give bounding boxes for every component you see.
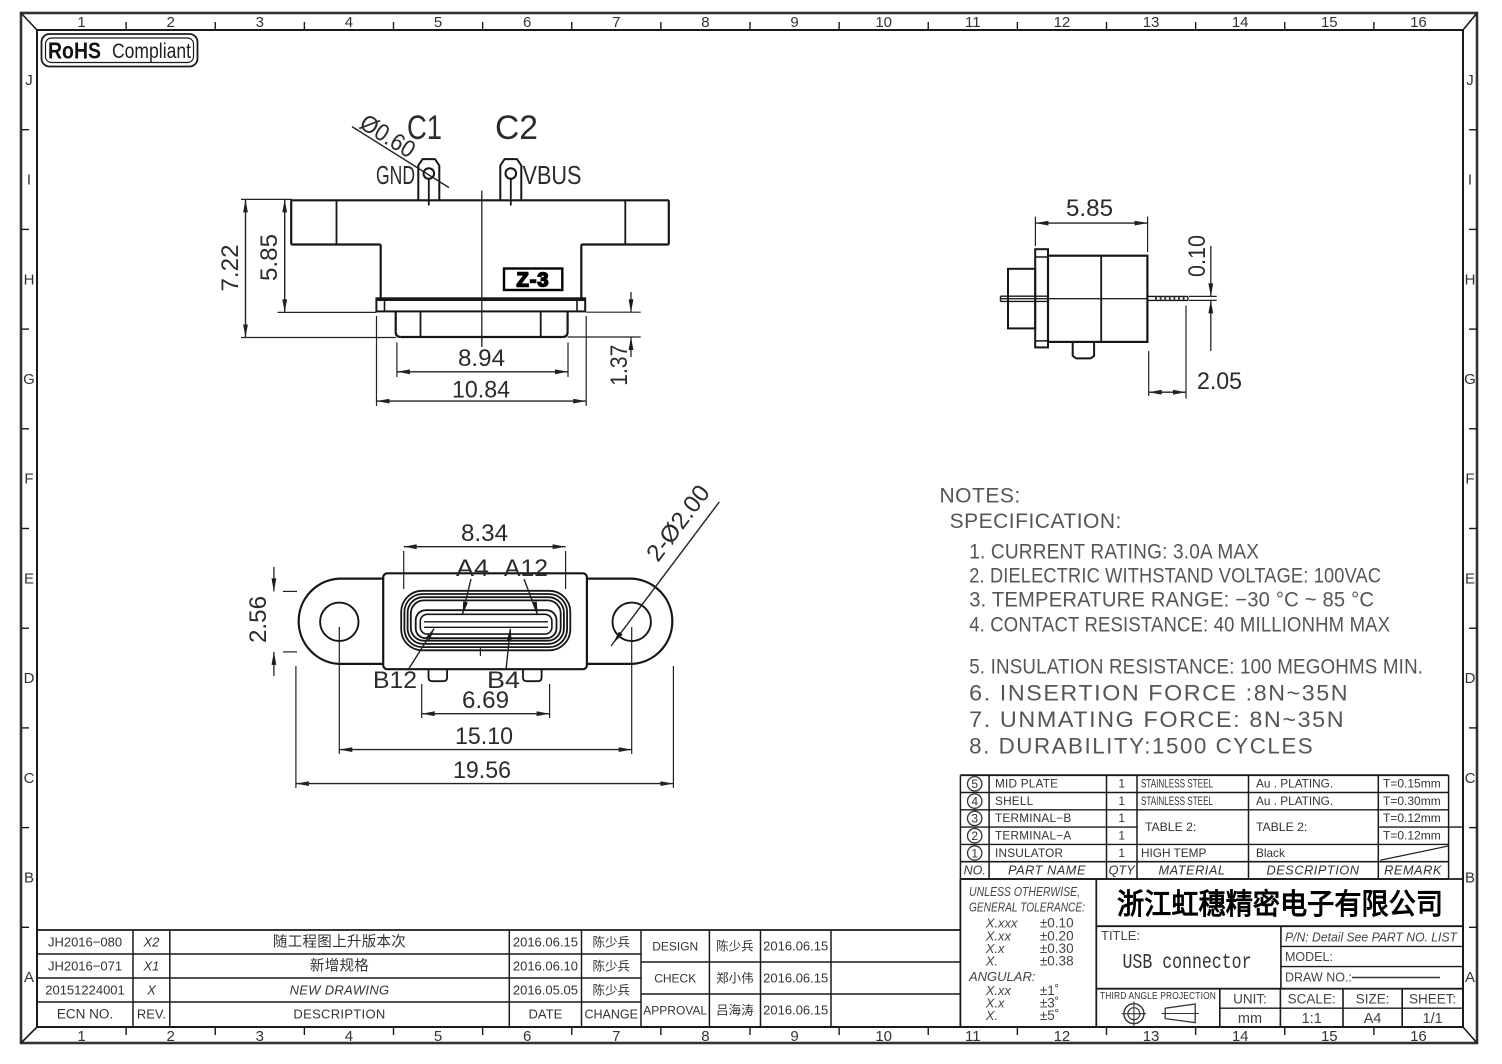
svg-text:PART NAME: PART NAME: [1008, 862, 1086, 877]
svg-text:2016.06.15: 2016.06.15: [763, 939, 828, 954]
svg-text:2016.05.05: 2016.05.05: [513, 982, 578, 997]
svg-text:2016.06.10: 2016.06.10: [513, 958, 578, 973]
svg-text:INSULATOR: INSULATOR: [995, 846, 1063, 860]
svg-text:A4: A4: [456, 555, 489, 582]
svg-text:12: 12: [1054, 14, 1071, 31]
svg-text:1. CURRENT RATING: 3.0A MA: 1. CURRENT RATING: 3.0A MAX: [969, 541, 1259, 564]
svg-text:3: 3: [256, 14, 264, 31]
svg-text:T=0.15mm: T=0.15mm: [1383, 777, 1441, 791]
svg-text:THIRD ANGLE PROJECTION: THIRD ANGLE PROJECTION: [1100, 990, 1216, 1002]
svg-text:X.: X.: [985, 953, 998, 968]
svg-text:5: 5: [434, 1028, 442, 1045]
svg-text:9: 9: [790, 14, 798, 31]
svg-text:E: E: [1465, 570, 1475, 587]
svg-text:T=0.30mm: T=0.30mm: [1383, 794, 1441, 808]
svg-text:10: 10: [875, 14, 892, 31]
svg-text:X.: X.: [985, 1008, 998, 1023]
svg-text:USB connector: USB connector: [1123, 952, 1252, 975]
svg-text:5: 5: [971, 777, 978, 791]
svg-text:陈少兵: 陈少兵: [592, 958, 630, 973]
svg-text:1/1: 1/1: [1423, 1011, 1443, 1027]
svg-text:15: 15: [1321, 14, 1338, 31]
svg-text:8.34: 8.34: [461, 520, 508, 547]
svg-text:C: C: [1465, 770, 1476, 787]
svg-text:ANGULAR:: ANGULAR:: [968, 969, 1036, 984]
svg-text:DRAW NO.:: DRAW NO.:: [1285, 971, 1352, 985]
svg-text:2016.06.15: 2016.06.15: [513, 934, 578, 949]
svg-text:1: 1: [1118, 794, 1125, 808]
svg-text:陈少兵: 陈少兵: [592, 934, 630, 949]
svg-text:STAINLESS STEEL: STAINLESS STEEL: [1141, 777, 1213, 791]
svg-text:8.94: 8.94: [458, 345, 505, 372]
svg-text:X2: X2: [142, 934, 160, 949]
svg-text:4: 4: [345, 1028, 353, 1045]
svg-text:SHEET:: SHEET:: [1409, 991, 1456, 1006]
svg-text:T=0.12mm: T=0.12mm: [1383, 829, 1441, 843]
svg-text:NOTES:: NOTES:: [940, 485, 1021, 508]
svg-text:新增规格: 新增规格: [310, 957, 369, 974]
svg-text:GENERAL TOLERANCE:: GENERAL TOLERANCE:: [969, 900, 1085, 915]
svg-text:12: 12: [1054, 1028, 1071, 1045]
svg-text:X1: X1: [142, 958, 159, 973]
svg-text:Compliant: Compliant: [112, 40, 191, 63]
svg-text:1: 1: [1118, 811, 1125, 825]
svg-text:6.69: 6.69: [462, 687, 509, 714]
svg-text:1: 1: [971, 846, 978, 860]
svg-text:F: F: [24, 471, 33, 488]
svg-text:APPROVAL: APPROVAL: [643, 1004, 707, 1018]
svg-text:6. INSERTION FORCE :8N~3: 6. INSERTION FORCE :8N~35N: [969, 680, 1349, 705]
svg-text:2016.06.15: 2016.06.15: [763, 971, 828, 986]
svg-text:6: 6: [523, 14, 531, 31]
svg-text:8: 8: [701, 14, 709, 31]
svg-text:3: 3: [256, 1028, 264, 1045]
svg-text:REMARK: REMARK: [1384, 862, 1442, 877]
svg-text:DESCRIPTION: DESCRIPTION: [1267, 862, 1360, 877]
svg-text:B: B: [1465, 869, 1475, 886]
svg-text:SCALE:: SCALE:: [1288, 991, 1336, 1006]
svg-text:8. DURABILITY:1500 CYCLES: 8. DURABILITY:1500 CYCLES: [969, 734, 1314, 759]
svg-text:Au . PLATING.: Au . PLATING.: [1256, 777, 1333, 791]
svg-text:1: 1: [77, 1028, 85, 1045]
svg-text:吕海涛: 吕海涛: [716, 1003, 754, 1018]
svg-text:Black: Black: [1256, 846, 1285, 860]
svg-text:TABLE 2:: TABLE 2:: [1256, 820, 1307, 834]
svg-text:T=0.12mm: T=0.12mm: [1383, 811, 1441, 825]
svg-text:3. TEMPERATURE RANGE: −30 °: 3. TEMPERATURE RANGE: −30 °C ~ 85 °C: [969, 588, 1374, 611]
svg-text:H: H: [24, 271, 35, 288]
svg-text:5: 5: [434, 14, 442, 31]
svg-text:C2: C2: [495, 109, 538, 147]
svg-text:5. INSULATION RESISTANCE: 1: 5. INSULATION RESISTANCE: 100 MEGOHMS MI…: [969, 656, 1423, 679]
svg-text:陈少兵: 陈少兵: [592, 982, 630, 997]
svg-text:7.22: 7.22: [217, 245, 244, 292]
svg-text:10: 10: [875, 1028, 892, 1045]
svg-text:VBUS: VBUS: [523, 160, 582, 190]
svg-text:TABLE 2:: TABLE 2:: [1145, 820, 1196, 834]
svg-text:15.10: 15.10: [455, 723, 513, 750]
svg-text:3: 3: [971, 812, 978, 826]
svg-text:MODEL:: MODEL:: [1285, 950, 1333, 964]
svg-text:TERMINAL−B: TERMINAL−B: [995, 811, 1071, 825]
svg-text:MID PLATE: MID PLATE: [995, 777, 1058, 791]
svg-text:2.56: 2.56: [245, 596, 272, 643]
svg-text:DESIGN: DESIGN: [652, 940, 698, 954]
svg-text:SHELL: SHELL: [995, 794, 1034, 808]
svg-text:B12: B12: [373, 667, 417, 694]
svg-text:G: G: [23, 371, 35, 388]
svg-text:10.84: 10.84: [452, 377, 510, 404]
svg-text:2: 2: [167, 14, 175, 31]
svg-text:J: J: [25, 72, 33, 89]
svg-text:ECN NO.: ECN NO.: [57, 1006, 113, 1021]
svg-text:D: D: [1465, 670, 1476, 687]
svg-text:1:1: 1:1: [1302, 1011, 1322, 1027]
svg-text:SIZE:: SIZE:: [1356, 991, 1390, 1006]
svg-text:CHANGE: CHANGE: [584, 1007, 637, 1021]
svg-text:J: J: [1466, 72, 1474, 89]
svg-text:SPECIFICATION:: SPECIFICATION:: [950, 510, 1122, 533]
svg-text:6: 6: [523, 1028, 531, 1045]
svg-text:20151224001: 20151224001: [45, 982, 125, 997]
svg-text:DATE: DATE: [529, 1006, 563, 1021]
svg-text:UNIT:: UNIT:: [1233, 991, 1267, 1006]
svg-text:G: G: [1464, 371, 1476, 388]
svg-text:DESCRIPTION: DESCRIPTION: [293, 1006, 385, 1021]
svg-text:16: 16: [1410, 1028, 1427, 1045]
svg-text:mm: mm: [1238, 1011, 1262, 1027]
svg-text:15: 15: [1321, 1028, 1338, 1045]
svg-text:14: 14: [1232, 14, 1249, 31]
svg-text:D: D: [24, 670, 35, 687]
svg-text:E: E: [24, 570, 34, 587]
svg-text:4: 4: [345, 14, 353, 31]
svg-text:1: 1: [77, 14, 85, 31]
svg-text:4. CONTACT RESISTANCE: 40: 4. CONTACT RESISTANCE: 40 MILLIONHM MAX: [969, 614, 1390, 637]
svg-text:±5˚: ±5˚: [1040, 1008, 1059, 1023]
svg-text:7: 7: [612, 14, 620, 31]
svg-text:11: 11: [965, 14, 981, 31]
svg-text:GND: GND: [376, 160, 415, 190]
svg-text:H: H: [1465, 271, 1476, 288]
svg-text:X: X: [146, 982, 157, 997]
svg-text:A12: A12: [504, 555, 548, 582]
svg-text:TITLE:: TITLE:: [1101, 928, 1140, 943]
svg-text:9: 9: [790, 1028, 798, 1045]
svg-text:F: F: [1465, 471, 1474, 488]
svg-text:16: 16: [1410, 14, 1427, 31]
svg-text:7. UNMATING FORCE: 8N~35: 7. UNMATING FORCE: 8N~35N: [969, 707, 1345, 732]
svg-text:A4: A4: [1364, 1011, 1382, 1027]
svg-text:13: 13: [1143, 1028, 1160, 1045]
svg-text:5.85: 5.85: [1066, 195, 1113, 222]
svg-text:±0.38: ±0.38: [1040, 953, 1074, 968]
svg-text:1.37: 1.37: [606, 345, 633, 386]
svg-text:A: A: [1465, 969, 1475, 986]
svg-text:HIGH TEMP: HIGH TEMP: [1141, 846, 1206, 860]
svg-text:NO.: NO.: [964, 863, 986, 877]
svg-text:Z-3: Z-3: [517, 270, 550, 292]
svg-text:2. DIELECTRIC WITHSTAND VOL: 2. DIELECTRIC WITHSTAND VOLTAGE: 100VAC: [969, 565, 1381, 588]
svg-text:STAINLESS STEEL: STAINLESS STEEL: [1141, 794, 1213, 808]
svg-text:1: 1: [1118, 777, 1125, 791]
svg-text:NEW DRAWING: NEW DRAWING: [290, 982, 390, 997]
svg-text:4: 4: [971, 794, 978, 808]
svg-text:Au . PLATING.: Au . PLATING.: [1256, 794, 1333, 808]
svg-text:JH2016−080: JH2016−080: [48, 934, 122, 949]
svg-text:0.10: 0.10: [1184, 235, 1211, 277]
svg-text:TERMINAL−A: TERMINAL−A: [995, 829, 1071, 843]
svg-text:I: I: [1468, 172, 1472, 189]
svg-text:A: A: [24, 969, 34, 986]
svg-text:REV.: REV.: [137, 1006, 166, 1021]
svg-text:CHECK: CHECK: [654, 972, 696, 986]
svg-text:2: 2: [167, 1028, 175, 1045]
svg-text:7: 7: [612, 1028, 620, 1045]
svg-text:14: 14: [1232, 1028, 1249, 1045]
svg-text:JH2016−071: JH2016−071: [48, 958, 122, 973]
svg-text:1: 1: [1118, 846, 1125, 860]
svg-text:2: 2: [971, 829, 978, 843]
svg-text:UNLESS OTHERWISE,: UNLESS OTHERWISE,: [969, 884, 1080, 899]
svg-text:B: B: [24, 869, 34, 886]
svg-text:2.05: 2.05: [1197, 368, 1242, 395]
svg-text:1: 1: [1118, 829, 1125, 843]
svg-text:郑小伟: 郑小伟: [716, 971, 754, 986]
svg-text:I: I: [27, 172, 31, 189]
svg-text:RoHS: RoHS: [48, 38, 101, 64]
svg-text:13: 13: [1143, 14, 1160, 31]
svg-text:8: 8: [701, 1028, 709, 1045]
svg-text:11: 11: [965, 1028, 981, 1045]
svg-text:C: C: [24, 770, 35, 787]
svg-text:陈少兵: 陈少兵: [716, 939, 754, 954]
svg-text:19.56: 19.56: [453, 757, 511, 784]
svg-text:随工程图上升版本次: 随工程图上升版本次: [273, 933, 406, 950]
svg-text:2016.06.15: 2016.06.15: [763, 1003, 828, 1018]
svg-text:浙江虹穗精密电子有限公司: 浙江虹穗精密电子有限公司: [1117, 887, 1443, 921]
svg-text:QTY: QTY: [1109, 862, 1137, 877]
svg-text:MATERIAL: MATERIAL: [1158, 862, 1225, 877]
svg-text:P/N: Detail See PART NO. L: P/N: Detail See PART NO. LIST: [1285, 931, 1458, 945]
svg-text:5.85: 5.85: [256, 234, 283, 281]
